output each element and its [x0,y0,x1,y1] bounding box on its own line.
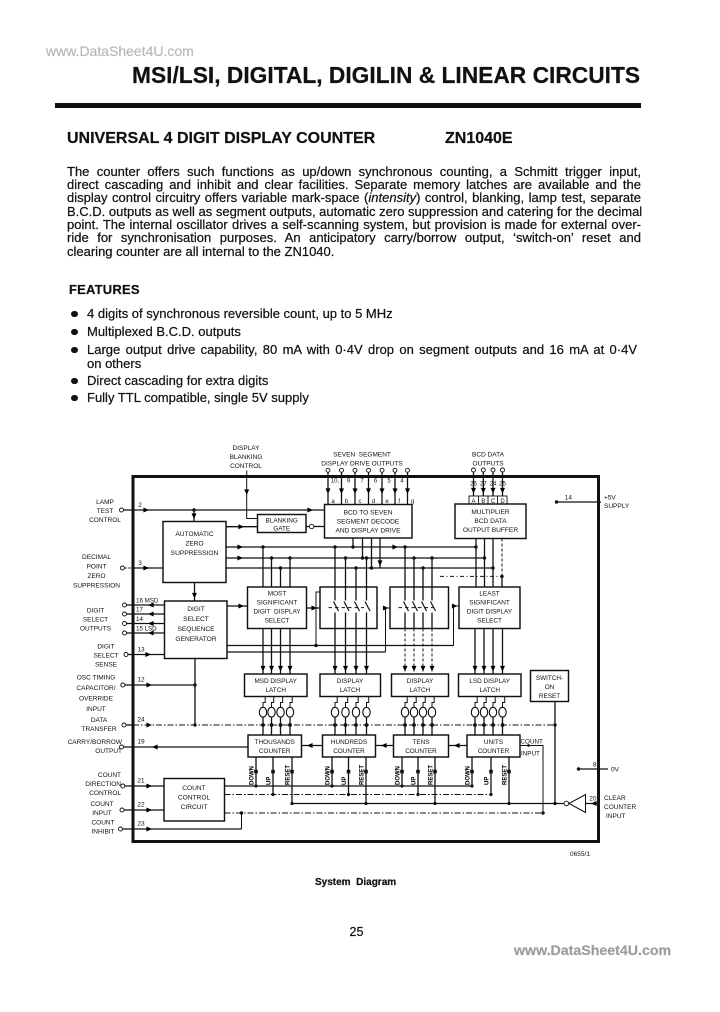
svg-text:23: 23 [137,821,145,828]
svg-text:7: 7 [360,479,364,485]
svg-text:CONTROL: CONTROL [178,795,211,802]
node: CARRY/BORROW OUTPUT label [68,739,123,755]
wire: risers from buses to segment switch group 1 [335,547,368,587]
svg-text:DOWN: DOWN [250,766,256,785]
svg-text:SELECT: SELECT [93,653,118,660]
svg-text:THOUSANDS: THOUSANDS [255,739,295,746]
block: DISPLAY LATCH (hundreds) [320,674,381,697]
pin: segment output e [380,468,392,505]
block: segment switch group 2 [390,587,449,629]
wire: bus B3 decimal point suppression bus [226,566,495,569]
node: DOWN UP RESET labels of counter 1 [250,765,292,785]
wire: down/up/reset inputs of counter 2 [330,757,368,805]
svg-text:BCD DATA: BCD DATA [472,452,505,459]
svg-text:SUPPLY: SUPPLY [604,503,630,510]
svg-text:OVERRIDE: OVERRIDE [79,696,114,703]
svg-text:15 LSD: 15 LSD [136,626,157,633]
svg-text:BCD DATA: BCD DATA [474,518,507,525]
block: LEAST SIGNIFICANT DIGIT DISPLAY SELECT [459,587,520,629]
block: SWITCH-ON RESET [531,671,569,702]
wire: MSD select outputs down to MSD display latch [261,629,293,675]
svg-text:COUNT: COUNT [182,785,205,792]
svg-text:LATCH: LATCH [265,687,286,694]
gate: transfer gates under MSD latch [259,697,293,736]
svg-text:TRANSFER: TRANSFER [81,726,116,733]
wire: bus B4 dashed to multiplex column D [440,575,504,578]
pin 8: 0V supply [577,762,620,774]
svg-text:DISPLAY: DISPLAY [233,445,261,452]
wire: down/up/reset inputs of counter 4 [470,757,511,805]
wire: switch-on reset down to clear bus [554,702,556,804]
svg-text:DISPLAY: DISPLAY [407,678,434,685]
svg-text:2: 2 [138,502,142,509]
svg-text:TENS: TENS [412,739,429,746]
svg-text:UP: UP [267,777,273,785]
wire: lamp test branch down to automatic zero suppression [192,508,197,521]
svg-text:ZERO: ZERO [87,573,105,580]
svg-text:22: 22 [137,802,145,809]
svg-text:25: 25 [499,482,506,488]
svg-text:LATCH: LATCH [340,687,361,694]
svg-text:SIGNIFICANT: SIGNIFICANT [257,600,298,607]
svg-text:SEGMENT DECODE: SEGMENT DECODE [337,519,400,526]
svg-text:0655/1: 0655/1 [570,851,590,858]
svg-text:19: 19 [137,739,145,746]
wire: digit select sequence to MSD display select [227,604,248,609]
wire: clear/reset bus to counters [292,802,564,805]
wire: down bus from count control [225,785,473,787]
IC chip boundary ZN1040 [133,477,599,842]
svg-text:OSC TIMING: OSC TIMING [77,675,116,682]
svg-text:CONTROL: CONTROL [230,463,262,470]
svg-text:27: 27 [480,482,487,488]
svg-text:RESET: RESET [539,693,560,700]
pin 2: lamp test control wire to decoder [120,502,325,513]
svg-text:SELECT: SELECT [83,617,108,624]
svg-text:INPUT: INPUT [521,751,540,758]
svg-text:GENERATOR: GENERATOR [175,636,216,643]
svg-text:AND DISPLAY DRIVE: AND DISPLAY DRIVE [336,528,402,535]
pin 22: count input [120,802,164,813]
svg-text:DECIMAL: DECIMAL [82,554,111,561]
svg-text:SUPPRESSION: SUPPRESSION [171,550,219,557]
wire: down/up/reset inputs of counter 3 [400,757,437,805]
svg-text:HUNDREDS: HUNDREDS [331,739,367,746]
svg-text:COUNTER: COUNTER [259,748,291,755]
node: DATA TRANSFER label [81,717,116,733]
svg-text:UNITS: UNITS [484,739,503,746]
svg-text:RESET: RESET [286,765,292,785]
svg-text:SEVEN SEGMENT: SEVEN SEGMENT [333,452,391,459]
svg-text:DATA: DATA [91,717,108,724]
block: TENS COUNTER [394,735,449,757]
wire: count input into units counter [520,744,545,815]
svg-text:17: 17 [136,607,143,614]
svg-text:COUNT: COUNT [521,739,544,746]
pin 13: digit select sense input [124,647,165,658]
svg-text:12: 12 [137,677,145,684]
node: DISPLAY BLANKING CONTROL label [230,445,263,470]
block: HUNDREDS COUNTER [323,735,376,757]
wire: bus B2 from zero suppression [226,556,486,561]
node: drawing number [570,851,590,858]
pin 21: count direction control input [121,778,164,789]
pin: segment output f [393,468,405,505]
svg-text:INHIBIT: INHIBIT [91,829,114,836]
svg-text:BCD TO SEVEN: BCD TO SEVEN [344,510,393,517]
svg-text:SUPPRESSION: SUPPRESSION [73,583,120,590]
pin: BCD data output A pin 26 [470,468,477,496]
pin: BCD data output B pin 27 [480,468,487,496]
block: UNITS COUNTER [467,735,520,757]
svg-text:INPUT: INPUT [606,813,626,820]
svg-text:LEAST: LEAST [479,591,499,598]
block: BCD TO SEVEN SEGMENT DECODE AND DISPLAY DRIVE [325,505,413,539]
svg-text:14: 14 [565,495,573,502]
svg-text:CARRY/BORROW: CARRY/BORROW [68,739,123,746]
svg-text:BLANKING: BLANKING [266,517,298,524]
svg-text:3: 3 [138,560,142,567]
svg-text:4: 4 [400,479,404,485]
block: MULTIPLIER BCD DATA OUTPUT BUFFER [455,504,526,539]
wire: carry chain units to tens [449,743,468,748]
svg-text:DOWN: DOWN [466,766,472,785]
svg-text:9: 9 [347,479,351,485]
svg-text:COUNTER: COUNTER [405,748,437,755]
svg-text:CLEAR: CLEAR [604,795,626,802]
node: DOWN UP RESET labels of counter 2 [326,765,366,785]
node: A B C D input boxes on multiplex buffer [469,496,507,505]
wire: blanking gate output with inverting bubble to decoder [306,524,325,528]
svg-text:OUTPUTS: OUTPUTS [80,626,112,633]
svg-text:DIGIT: DIGIT [87,608,104,615]
svg-text:DIGIT: DIGIT [187,606,205,613]
svg-text:TEST: TEST [97,508,114,515]
wire: display blanking control pin into blanking gate [244,471,257,519]
svg-text:COUNTER: COUNTER [333,748,365,755]
pin: BCD data output D pin 25 [499,468,506,496]
node: DOWN UP RESET labels of counter 3 [396,765,435,785]
block: AUTOMATIC ZERO SUPPRESSION [163,522,226,583]
block: THOUSANDS COUNTER [248,735,302,757]
svg-text:DISPLAY: DISPLAY [337,678,364,685]
node: COUNT INPUT internal label [521,739,544,758]
svg-text:COUNT: COUNT [91,820,114,827]
wire: down/up/reset inputs of counter 1 [254,757,294,805]
node: COUNT INPUT label [90,801,113,817]
block: segment switch group 1 [320,587,377,629]
svg-text:COUNT: COUNT [98,772,121,779]
node: COUNT INHIBIT label [91,820,114,836]
svg-text:UP: UP [342,777,348,785]
svg-text:DOWN: DOWN [396,766,402,785]
wire: switch group 1 outputs down to display latch [333,629,370,675]
svg-text:DISPLAY DRIVE OUTPUTS: DISPLAY DRIVE OUTPUTS [321,461,403,468]
pin: segment output d [366,468,378,505]
svg-text:MOST: MOST [268,591,287,598]
inverter: clear counter input buffer [564,795,586,813]
pin 3: decimal point zero suppression input [120,560,163,571]
svg-text:SELECT: SELECT [183,616,209,623]
svg-text:AUTOMATIC: AUTOMATIC [175,531,213,538]
wire: strobe line upper [227,644,454,647]
svg-text:21: 21 [137,778,145,785]
pin 20: clear counter input [586,795,637,820]
node: DOWN UP RESET labels of counter 4 [466,765,509,785]
wire: hook from lower strobe to switch group 2 [383,606,390,653]
svg-text:DIRECTION: DIRECTION [85,781,121,788]
svg-text:SIGNIFICANT: SIGNIFICANT [469,600,510,607]
svg-text:24: 24 [137,717,145,724]
svg-text:13: 13 [137,647,145,654]
svg-text:26: 26 [470,482,477,488]
wire: zero suppression down to digit select sequence generator [192,583,197,602]
svg-text:UP: UP [485,777,491,785]
svg-text:BLANKING: BLANKING [230,454,263,461]
pin: BCD data output C pin 24 [490,468,497,496]
svg-text:POINT: POINT [87,564,107,571]
wire: bus B1 from zero suppression [226,545,478,550]
svg-text:LATCH: LATCH [479,687,500,694]
svg-text:OUTPUT BUFFER: OUTPUT BUFFER [463,527,518,534]
block: MSD DISPLAY LATCH [245,674,308,697]
wire: carry chain tens to hundreds [376,743,394,748]
wire: strobe line lower [227,651,386,653]
svg-text:5: 5 [387,479,391,485]
svg-text:RESET: RESET [503,765,509,785]
svg-text:INPUT: INPUT [92,810,112,817]
gate: transfer gates under tens latch [401,697,435,736]
svg-text:SENSE: SENSE [95,662,118,669]
pin 19: carry/borrow output from thousands counter [120,739,249,750]
wire: MSD select to switch group 1 [307,606,321,611]
pin: digit select output 15 [123,626,165,636]
svg-text:DIGIT DISPLAY: DIGIT DISPLAY [467,609,513,616]
wire: sequence generator down to data transfer bus [194,659,196,726]
node: LAMP TEST CONTROL label [89,499,121,524]
svg-text:DIGIT DISPLAY: DIGIT DISPLAY [253,609,301,616]
svg-text:CIRCUIT: CIRCUIT [181,804,208,811]
node: COUNT DIRECTION CONTROL label [85,772,121,797]
svg-text:DIGIT: DIGIT [97,644,114,651]
svg-text:RESET: RESET [429,765,435,785]
svg-text:CONTROL: CONTROL [89,790,121,797]
svg-text:SELECT: SELECT [265,618,290,625]
gate: transfer gates under LSD latch [471,697,506,736]
svg-text:+5V: +5V [604,495,616,502]
svg-text:COUNTER: COUNTER [604,804,636,811]
svg-text:16 MSD: 16 MSD [136,598,159,605]
svg-text:SWITCH-: SWITCH- [536,675,563,682]
wire: feedback riser to switch group 1 [316,592,320,646]
svg-text:RESET: RESET [360,765,366,785]
pin: digit select output 14 [123,616,165,626]
svg-text:SELECT: SELECT [477,618,502,625]
gate: transfer gates under hundreds latch [331,697,370,736]
svg-text:OUTPUT: OUTPUT [95,748,122,755]
block: DISPLAY LATCH (tens) [392,674,449,697]
wire: switch group 2 outputs down to display latch [403,629,435,675]
svg-text:UP: UP [412,777,418,785]
node: DIGIT SELECT SENSE label [93,644,118,669]
pin: segment output b [339,468,351,505]
wire: carry chain hundreds to thousands [302,743,323,748]
svg-text:COUNT: COUNT [90,801,113,808]
svg-text:LAMP: LAMP [96,499,114,506]
svg-text:MSD DISPLAY: MSD DISPLAY [254,678,297,685]
wire: hook from upper strobe to LSD display select [452,604,459,646]
wire: multiplex buffer columns down to LSD digit display select [476,539,502,588]
svg-text:10,: 10, [331,479,340,485]
svg-text:COUNTER: COUNTER [478,748,510,755]
pin: segment output a [326,468,340,505]
block: BLANKING GATE [258,515,307,533]
pin: segment output c [353,468,365,505]
pin: digit select output 17 [123,607,165,617]
svg-text:MULTIPLIER: MULTIPLIER [471,509,510,516]
svg-text:SEQUENCE: SEQUENCE [177,626,215,633]
block: COUNT CONTROL CIRCUIT [164,779,225,822]
svg-text:0V: 0V [611,767,620,774]
pin 14: +5V supply [555,495,630,511]
svg-text:LSD DISPLAY: LSD DISPLAY [469,678,510,685]
block: MOST SIGNIFICANT DIGIT DISPLAY SELECT [248,587,307,629]
svg-text:CONTROL: CONTROL [89,517,121,524]
node: SEVEN SEGMENT DISPLAY DRIVE OUTPUTS label [321,452,403,468]
svg-text:6: 6 [374,479,378,485]
svg-text:OUTPUTS: OUTPUTS [472,461,504,468]
svg-text:ON: ON [545,684,555,691]
wire: zero suppression to blanking gate [226,524,258,529]
block: LSD DISPLAY LATCH [459,674,522,697]
wire: decoder output risers to buses [353,538,383,568]
node: DECIMAL POINT ZERO SUPPRESSION label [73,554,120,590]
svg-text:DOWN: DOWN [326,766,332,785]
pin: digit select output 16 [123,598,165,608]
svg-text:GATE: GATE [273,525,290,532]
pin 23: count inhibit input [119,811,244,831]
wire: LSD select outputs down to LSD display latch [473,629,506,675]
wire: up bus from count control [225,794,492,796]
wire: risers from buses to MSD display select [263,547,292,587]
pin 24: data transfer bus [122,717,557,728]
pin: segment output g [405,468,414,505]
block: DIGIT SELECT SEQUENCE GENERATOR [165,601,228,659]
pin 12: oscillator timing capacitor input [121,677,197,688]
wire: risers from buses to segment switch group 2 [405,547,434,587]
svg-text:LATCH: LATCH [410,687,431,694]
svg-text:24: 24 [490,482,497,488]
svg-text:INPUT: INPUT [86,706,106,713]
svg-text:14: 14 [136,616,143,623]
svg-text:8: 8 [593,762,597,769]
node: BCD DATA OUTPUTS label [472,452,505,468]
svg-text:CAPACITOR/: CAPACITOR/ [76,685,115,692]
node: DIGIT SELECT OUTPUTS label [80,608,112,633]
node: OSC TIMING CAPACITOR OVERRIDE INPUT label [76,675,115,714]
wire: count input bus [225,812,544,814]
svg-text:ZERO: ZERO [185,541,203,548]
